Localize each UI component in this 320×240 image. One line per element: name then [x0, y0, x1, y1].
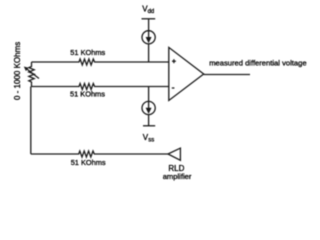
svg-text:51 KOhms: 51 KOhms [70, 90, 105, 99]
svg-text:0 - 1000 KOhms: 0 - 1000 KOhms [13, 42, 22, 100]
svg-text:amplifier: amplifier [163, 172, 192, 181]
svg-text:51 KOhms: 51 KOhms [71, 158, 106, 167]
svg-text:dd: dd [148, 9, 155, 15]
svg-text:51 KOhms: 51 KOhms [70, 48, 105, 57]
svg-text:measured differential voltage: measured differential voltage [209, 58, 306, 67]
svg-text:ss: ss [148, 138, 154, 144]
